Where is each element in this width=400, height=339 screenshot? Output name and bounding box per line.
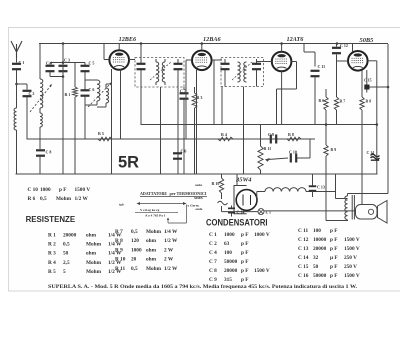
svg-text:1500 V: 1500 V xyxy=(344,237,360,243)
svg-text:315: 315 xyxy=(224,277,232,283)
svg-text:p F: p F xyxy=(241,232,249,238)
svg-text:0,5: 0,5 xyxy=(40,196,47,202)
svg-text:ohm: ohm xyxy=(146,238,157,244)
svg-text:C 14: C 14 xyxy=(298,255,309,261)
svg-text:R 1: R 1 xyxy=(65,92,71,97)
svg-text:R 5: R 5 xyxy=(48,269,56,275)
svg-text:50B5: 50B5 xyxy=(360,37,375,44)
svg-text:Mohm: Mohm xyxy=(86,242,102,248)
svg-text:ohm: ohm xyxy=(146,247,157,253)
svg-text:0,5: 0,5 xyxy=(63,242,70,248)
svg-text:C 13: C 13 xyxy=(298,246,309,252)
svg-text:100: 100 xyxy=(313,228,321,234)
svg-text:1500 V: 1500 V xyxy=(344,246,360,252)
svg-text:C 15: C 15 xyxy=(298,264,309,270)
svg-text:C 9: C 9 xyxy=(209,277,217,283)
svg-text:12AT6: 12AT6 xyxy=(287,36,305,43)
svg-text:0,5: 0,5 xyxy=(131,266,138,272)
svg-text:1000 V: 1000 V xyxy=(254,232,270,238)
svg-text:C 11: C 11 xyxy=(298,228,309,234)
svg-text:SUPERLA S. A. - Mod. 5 R: SUPERLA S. A. - Mod. 5 R Onde media da 1… xyxy=(48,285,358,290)
svg-text:C 7: C 7 xyxy=(209,259,217,265)
svg-text:µ F: µ F xyxy=(330,255,338,261)
svg-text:R 7: R 7 xyxy=(340,100,346,104)
svg-text:50000: 50000 xyxy=(224,259,238,265)
svg-text:20000: 20000 xyxy=(224,268,238,274)
svg-text:C 11: C 11 xyxy=(318,64,326,69)
svg-text:CONDENSATORI: CONDENSATORI xyxy=(206,218,268,229)
svg-text:p F: p F xyxy=(330,273,338,279)
svg-text:20000: 20000 xyxy=(313,246,327,252)
svg-text:0,5: 0,5 xyxy=(131,229,138,235)
svg-text:120: 120 xyxy=(131,238,139,244)
svg-text:R 11: R 11 xyxy=(115,266,126,272)
svg-text:C 14: C 14 xyxy=(237,210,245,215)
svg-text:R 3: R 3 xyxy=(48,251,56,257)
svg-text:1/2 W: 1/2 W xyxy=(164,238,178,244)
svg-text:1000: 1000 xyxy=(131,247,142,253)
svg-text:L 1: L 1 xyxy=(266,210,271,215)
svg-text:250 V: 250 V xyxy=(344,255,357,261)
svg-text:C 3: C 3 xyxy=(64,58,70,63)
svg-text:C 15: C 15 xyxy=(364,79,372,83)
svg-text:1500 V: 1500 V xyxy=(75,187,91,193)
svg-text:C 13: C 13 xyxy=(317,185,325,190)
svg-text:20000: 20000 xyxy=(63,233,77,239)
svg-text:5R: 5R xyxy=(118,153,139,172)
svg-text:R 9: R 9 xyxy=(115,247,123,253)
svg-text:onde: onde xyxy=(196,207,203,211)
svg-text:RESISTENZE: RESISTENZE xyxy=(26,214,76,224)
svg-text:R 8: R 8 xyxy=(115,238,123,244)
svg-text:R 2: R 2 xyxy=(48,242,56,248)
svg-text:5: 5 xyxy=(63,269,66,275)
svg-text:1000: 1000 xyxy=(40,187,51,193)
svg-text:C 10: C 10 xyxy=(28,187,39,193)
svg-text:50MB: 50MB xyxy=(194,196,203,200)
svg-text:ohm: ohm xyxy=(86,251,97,257)
svg-text:p F: p F xyxy=(241,250,249,256)
svg-text:32: 32 xyxy=(313,255,319,261)
svg-text:p F: p F xyxy=(330,246,338,252)
svg-text:12BA6: 12BA6 xyxy=(203,36,221,43)
svg-text:p F: p F xyxy=(59,187,67,193)
svg-text:onda: onda xyxy=(195,183,202,187)
svg-text:35W4: 35W4 xyxy=(235,177,252,184)
svg-text:C 4: C 4 xyxy=(209,250,217,256)
svg-text:R 9: R 9 xyxy=(331,148,337,152)
svg-text:250 V: 250 V xyxy=(344,264,357,270)
svg-text:2,5: 2,5 xyxy=(63,260,70,266)
svg-text:C 8: C 8 xyxy=(209,268,217,274)
svg-text:C 16: C 16 xyxy=(298,273,309,279)
svg-text:V cd og ko cg: V cd og ko cg xyxy=(140,208,160,212)
svg-text:R 7: R 7 xyxy=(115,229,123,235)
svg-text:p F: p F xyxy=(330,237,338,243)
svg-text:C 8: C 8 xyxy=(46,150,52,155)
svg-text:2 W: 2 W xyxy=(164,257,174,263)
svg-text:20: 20 xyxy=(131,257,137,263)
svg-text:R 6: R 6 xyxy=(319,99,325,103)
svg-text:50: 50 xyxy=(313,264,319,270)
svg-text:63: 63 xyxy=(224,241,230,247)
svg-text:C 12: C 12 xyxy=(298,237,309,243)
svg-text:p F: p F xyxy=(330,264,338,270)
svg-text:R 8: R 8 xyxy=(288,132,294,137)
svg-text:p F: p F xyxy=(241,241,249,247)
svg-text:ohm: ohm xyxy=(86,233,97,239)
svg-text:R 3: R 3 xyxy=(197,95,203,100)
svg-text:p F: p F xyxy=(330,228,338,234)
svg-text:R 10: R 10 xyxy=(115,257,126,263)
svg-text:50000: 50000 xyxy=(313,273,327,279)
svg-text:Mohm: Mohm xyxy=(86,260,102,266)
svg-text:1/2 W: 1/2 W xyxy=(75,196,89,202)
svg-text:ohm: ohm xyxy=(146,257,157,263)
svg-text:R 8: R 8 xyxy=(366,100,372,104)
svg-text:tgb: tgb xyxy=(119,203,124,207)
svg-text:Mohm: Mohm xyxy=(86,269,102,275)
svg-text:p F: p F xyxy=(241,259,249,265)
svg-text:Mohm: Mohm xyxy=(146,266,162,272)
svg-text:R 4: R 4 xyxy=(221,132,227,137)
svg-text:A o 4 765 Pa 1: A o 4 765 Pa 1 xyxy=(145,214,166,218)
svg-text:1/2 W: 1/2 W xyxy=(164,266,178,272)
svg-text:R 11: R 11 xyxy=(264,146,272,151)
svg-text:100: 100 xyxy=(224,250,232,256)
svg-text:R 6: R 6 xyxy=(28,196,36,202)
svg-text:Mohm: Mohm xyxy=(146,229,162,235)
svg-text:12BE6: 12BE6 xyxy=(119,36,137,43)
svg-text:C 2: C 2 xyxy=(209,241,217,247)
svg-text:p F: p F xyxy=(241,277,249,283)
svg-text:C 1: C 1 xyxy=(209,232,217,238)
svg-text:p F: p F xyxy=(241,268,249,274)
svg-text:1500 V: 1500 V xyxy=(344,273,360,279)
svg-text:50: 50 xyxy=(63,251,69,257)
svg-text:Mohm: Mohm xyxy=(56,196,72,202)
svg-text:ADATTATORE: ADATTATORE xyxy=(140,191,167,196)
svg-text:R 5: R 5 xyxy=(98,131,104,136)
svg-text:1/4 W: 1/4 W xyxy=(164,229,178,235)
svg-text:R 4: R 4 xyxy=(48,260,56,266)
svg-text:1000: 1000 xyxy=(224,232,235,238)
svg-text:1500 V: 1500 V xyxy=(254,268,270,274)
svg-text:10000: 10000 xyxy=(313,237,327,243)
svg-text:2 W: 2 W xyxy=(164,247,174,253)
svg-text:R 10: R 10 xyxy=(212,181,220,186)
svg-text:R 1: R 1 xyxy=(48,233,56,239)
svg-text:C 12: C 12 xyxy=(340,43,348,48)
